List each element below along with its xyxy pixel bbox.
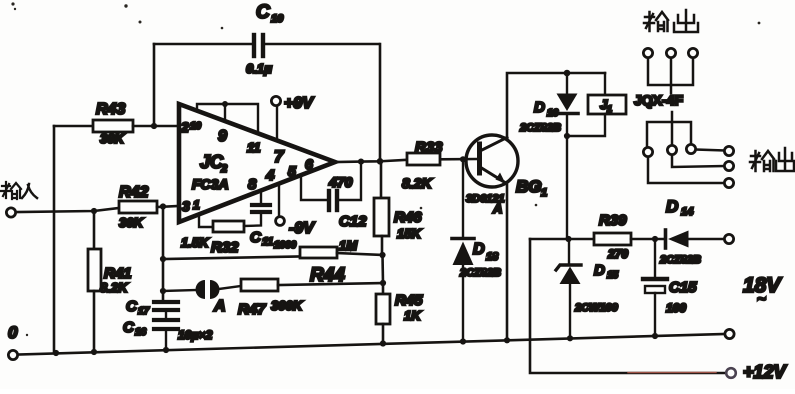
svg-text:~: ~ — [757, 291, 766, 308]
label 1K value of R45 — [404, 308, 422, 323]
label 0 — [8, 323, 18, 342]
label R42 — [119, 184, 148, 201]
label 2CZ82B value of D18 — [459, 267, 501, 279]
label BG1 — [516, 177, 547, 199]
label R43 — [96, 101, 125, 118]
junction node gnd D15 — [567, 335, 573, 341]
label C12 — [339, 213, 367, 230]
svg-text:300K: 300K — [271, 298, 304, 313]
wire C12 to output node — [339, 162, 361, 200]
terminal -9V — [276, 184, 285, 225]
label 0.1u value of C10 — [246, 61, 272, 76]
label +12V — [743, 362, 788, 382]
relay output column circles — [724, 146, 733, 187]
wire relay top pole middle — [670, 58, 673, 93]
svg-text:D: D — [473, 241, 485, 258]
label 2CZ82B value of D14 — [659, 254, 701, 266]
resistor R47 — [241, 279, 383, 291]
wire relay bottom pole middle — [671, 112, 674, 145]
svg-text:7: 7 — [274, 147, 285, 166]
svg-text:R32: R32 — [211, 239, 239, 256]
label R44 — [310, 265, 345, 286]
capacitor C16 plates — [154, 312, 178, 350]
label pin 11 — [247, 140, 261, 155]
label 2CZ82B value of D16 — [519, 122, 561, 134]
label C11 1000 — [250, 229, 297, 251]
label pin 3 — [182, 198, 200, 214]
resistor R44 — [163, 247, 383, 259]
label 10ux2 value of C16 C17 — [178, 328, 213, 342]
svg-text:0.1μ: 0.1μ — [246, 61, 272, 76]
wire relay top contact left — [648, 58, 671, 85]
junction node R47 left — [160, 288, 166, 294]
label R32 — [211, 239, 239, 256]
label C10 — [256, 2, 284, 25]
svg-text:C15: C15 — [669, 279, 697, 296]
label pin 2 — [180, 119, 202, 135]
diode D16 — [556, 73, 578, 239]
svg-text:15: 15 — [607, 270, 619, 281]
label R47 — [238, 301, 266, 318]
junction node R44 left — [160, 256, 166, 262]
junction node C12 output — [358, 159, 364, 165]
scan speckles — [11, 2, 760, 336]
svg-text:5: 5 — [288, 163, 296, 179]
label 3DG121 — [466, 193, 505, 216]
svg-text:1K: 1K — [404, 308, 422, 323]
resistor R42 — [119, 201, 178, 213]
terminal +9V — [271, 96, 280, 140]
junction node R44 right — [379, 252, 385, 258]
terminal input — [6, 208, 15, 217]
svg-text:2: 2 — [180, 119, 189, 135]
label D16 — [534, 99, 559, 119]
junction node R43/C10 — [151, 123, 157, 129]
diode D18 — [452, 159, 474, 342]
wire relay bottom bar — [647, 122, 691, 148]
wire left vertical R43 to ground — [53, 126, 56, 353]
junction node D15/coil — [565, 236, 571, 242]
svg-text:JQX-4F: JQX-4F — [634, 92, 683, 108]
resistor R46 — [374, 161, 389, 255]
label -9V — [289, 220, 315, 237]
junction node D16 coil bottom — [564, 133, 570, 139]
svg-text:4: 4 — [265, 167, 275, 184]
svg-text:8.2K: 8.2K — [100, 280, 129, 295]
resistor R41 — [88, 211, 101, 351]
junction node input/R41 — [91, 208, 97, 214]
terminal 0 ground input — [8, 350, 17, 359]
junction node R47 right — [380, 280, 386, 286]
svg-text:11: 11 — [262, 236, 273, 248]
wire op-amp output to transistor base — [335, 159, 477, 162]
svg-text:D: D — [534, 99, 545, 116]
svg-text:10: 10 — [190, 121, 202, 132]
svg-text:2: 2 — [220, 163, 227, 175]
junction node collector D16 — [564, 70, 571, 77]
svg-text:A: A — [492, 201, 502, 216]
relay contact bottom row circles — [643, 144, 695, 156]
svg-text:2CW109: 2CW109 — [574, 302, 619, 314]
svg-text:15K: 15K — [397, 226, 422, 241]
svg-text:1: 1 — [541, 187, 547, 199]
resistor R43 — [54, 120, 178, 132]
junction node gnd C16 — [163, 347, 169, 353]
junction node gnd R41 — [91, 349, 97, 355]
svg-text:-9V: -9V — [289, 220, 315, 237]
label C16 — [123, 319, 147, 338]
svg-text:9: 9 — [218, 128, 227, 145]
wire relay top contact right — [671, 58, 693, 85]
capacitor C10 plates — [254, 35, 263, 56]
relay contact top group terminals — [643, 48, 697, 57]
wire pin1 to R32 — [199, 215, 213, 227]
wire contact left to output3 — [648, 157, 724, 183]
wire R44 node to R47 node — [381, 255, 384, 283]
svg-text:100: 100 — [666, 301, 686, 315]
label R41 — [104, 265, 132, 282]
label pin 5 — [288, 163, 296, 179]
label pin 9 — [218, 128, 227, 145]
svg-text:3: 3 — [182, 198, 190, 214]
svg-text:D: D — [666, 197, 678, 216]
svg-text:1: 1 — [193, 198, 200, 212]
wire feedback column x163 — [162, 206, 165, 300]
svg-text:470: 470 — [328, 174, 353, 190]
transistor Q1 BG1 — [466, 135, 518, 187]
label 30K value of R43 — [100, 131, 125, 146]
junction node gnd emitter — [504, 337, 510, 343]
junction node C10/R46 output — [377, 158, 384, 165]
label D15 — [594, 262, 619, 281]
relay coil J1 — [567, 73, 626, 136]
junction node pin3 column — [160, 203, 166, 209]
label 8.2K value of R33 — [402, 175, 432, 191]
label A — [213, 298, 226, 315]
svg-text:R39: R39 — [599, 212, 627, 229]
label D14 — [666, 197, 693, 218]
op-amp U1 JC2 FC3A triangle — [179, 104, 335, 222]
wire collector up — [507, 73, 605, 138]
wire C10 right vertical down to output node — [379, 44, 382, 161]
label 8.2K value of R41 — [100, 280, 129, 295]
svg-text:1: 1 — [607, 104, 612, 114]
svg-text:+9V: +9V — [284, 95, 314, 112]
label C17 — [126, 298, 150, 317]
label 18V — [743, 274, 782, 308]
wire +12V branch — [530, 239, 726, 373]
svg-text:R42: R42 — [119, 184, 148, 201]
op-amp pins 10-9-11 tie bar — [197, 101, 258, 133]
wire 18V supply line — [530, 238, 594, 241]
svg-text:C12: C12 — [339, 213, 367, 230]
resistor R32 — [213, 214, 261, 232]
label shuchu output top chinese — [644, 10, 698, 32]
label JQX-4F — [634, 92, 683, 108]
svg-text:C: C — [126, 298, 138, 315]
svg-text:R47: R47 — [238, 301, 266, 318]
zener diode D15 — [556, 239, 581, 338]
capacitor C12 plates — [329, 191, 337, 210]
junction node gnd R43 — [53, 350, 59, 356]
terminal 18V ac input — [724, 234, 733, 243]
label shuru input chinese — [1, 182, 37, 199]
svg-text:R33: R33 — [415, 139, 443, 156]
label pin 6 — [305, 156, 313, 172]
terminal +12V — [726, 368, 736, 378]
label 470 value of C12 — [328, 174, 353, 190]
svg-text:8: 8 — [248, 176, 257, 193]
svg-text:8.2K: 8.2K — [402, 175, 432, 191]
label 100 value of C15 — [666, 301, 686, 315]
label pin 7 — [274, 147, 285, 166]
label J1 — [600, 97, 612, 114]
svg-text:10μ×2: 10μ×2 — [178, 328, 213, 342]
svg-text:11: 11 — [247, 140, 261, 155]
resistor R45 — [376, 283, 390, 344]
capacitor A electrolytic — [163, 280, 241, 299]
wire contact mid to output2 — [672, 155, 724, 167]
svg-text:16: 16 — [135, 327, 147, 338]
label 30K value of R42 — [119, 215, 144, 230]
label R33 — [415, 139, 443, 156]
svg-text:1000: 1000 — [274, 240, 297, 251]
label R39 — [599, 212, 627, 229]
label R46 — [394, 209, 422, 226]
wire pin5 to C12 — [301, 176, 327, 200]
svg-text:14: 14 — [681, 206, 693, 218]
label 270 value of R39 — [607, 247, 628, 261]
svg-text:18: 18 — [486, 251, 499, 263]
svg-text:10: 10 — [271, 13, 284, 25]
capacitor C17 plates — [154, 302, 178, 310]
wire emitter down to ground — [506, 183, 509, 340]
wire contact right to output1 — [696, 150, 724, 151]
capacitor C15 electrolytic — [643, 239, 667, 336]
svg-text:16: 16 — [547, 108, 559, 119]
wire C10 top right segment — [265, 43, 379, 46]
svg-text:1.5K: 1.5K — [181, 235, 210, 250]
wire C10 feedback loop left vertical — [153, 44, 156, 126]
junction node gnd C15 — [652, 333, 658, 339]
label C15 — [669, 279, 697, 296]
label +9V — [284, 95, 314, 112]
svg-text:30K: 30K — [119, 215, 144, 230]
svg-text:0: 0 — [8, 323, 18, 342]
svg-text:270: 270 — [607, 247, 628, 261]
resistor R39 — [594, 233, 665, 245]
label FC3A — [192, 176, 229, 192]
svg-text:C: C — [256, 2, 270, 23]
label 15K value of R46 — [397, 226, 422, 241]
svg-text:2CZ82B: 2CZ82B — [659, 254, 701, 266]
svg-text:2CZ82B: 2CZ82B — [459, 267, 501, 279]
label R45 — [395, 292, 423, 309]
junction node gnd D18 — [460, 338, 466, 344]
label 2CW109 value of D15 — [574, 302, 619, 314]
wire input line to pin3 — [16, 208, 119, 212]
svg-text:1M: 1M — [339, 238, 358, 253]
wire C10 top left segment — [154, 43, 252, 46]
wire ground rail — [18, 334, 725, 355]
svg-text:C: C — [123, 319, 135, 336]
label pin 4 — [265, 167, 275, 184]
terminal gnd right — [725, 329, 734, 338]
capacitor C11 plates — [252, 191, 270, 212]
svg-text:30K: 30K — [100, 131, 125, 146]
svg-text:2CZ82B: 2CZ82B — [519, 122, 561, 134]
label 1.5K value of R32 — [181, 235, 210, 250]
svg-text:R43: R43 — [96, 101, 125, 118]
svg-text:+12V: +12V — [743, 362, 788, 382]
label pin 8 — [248, 176, 257, 193]
junction node base/D18 — [460, 156, 466, 162]
junction node C15 top — [652, 236, 658, 242]
svg-text:6: 6 — [305, 156, 313, 172]
svg-text:A: A — [213, 298, 226, 315]
wire +12V red tinted segment — [628, 371, 716, 373]
label JC2 — [200, 152, 227, 175]
label 300K value of R47 — [271, 298, 304, 313]
label 1M value of R44 — [339, 238, 358, 253]
resistor R33 — [407, 153, 440, 165]
svg-text:C: C — [250, 229, 262, 246]
svg-text:FC3A: FC3A — [192, 176, 229, 192]
svg-text:17: 17 — [138, 306, 150, 317]
label D18 — [473, 241, 499, 263]
svg-text:D: D — [594, 262, 605, 279]
svg-text:BG: BG — [516, 177, 542, 196]
svg-text:R45: R45 — [395, 292, 423, 309]
label shuchu output right chinese — [750, 148, 794, 171]
diode D14 — [666, 230, 725, 248]
junction node gnd R45 — [380, 340, 386, 346]
svg-text:R46: R46 — [394, 209, 422, 226]
